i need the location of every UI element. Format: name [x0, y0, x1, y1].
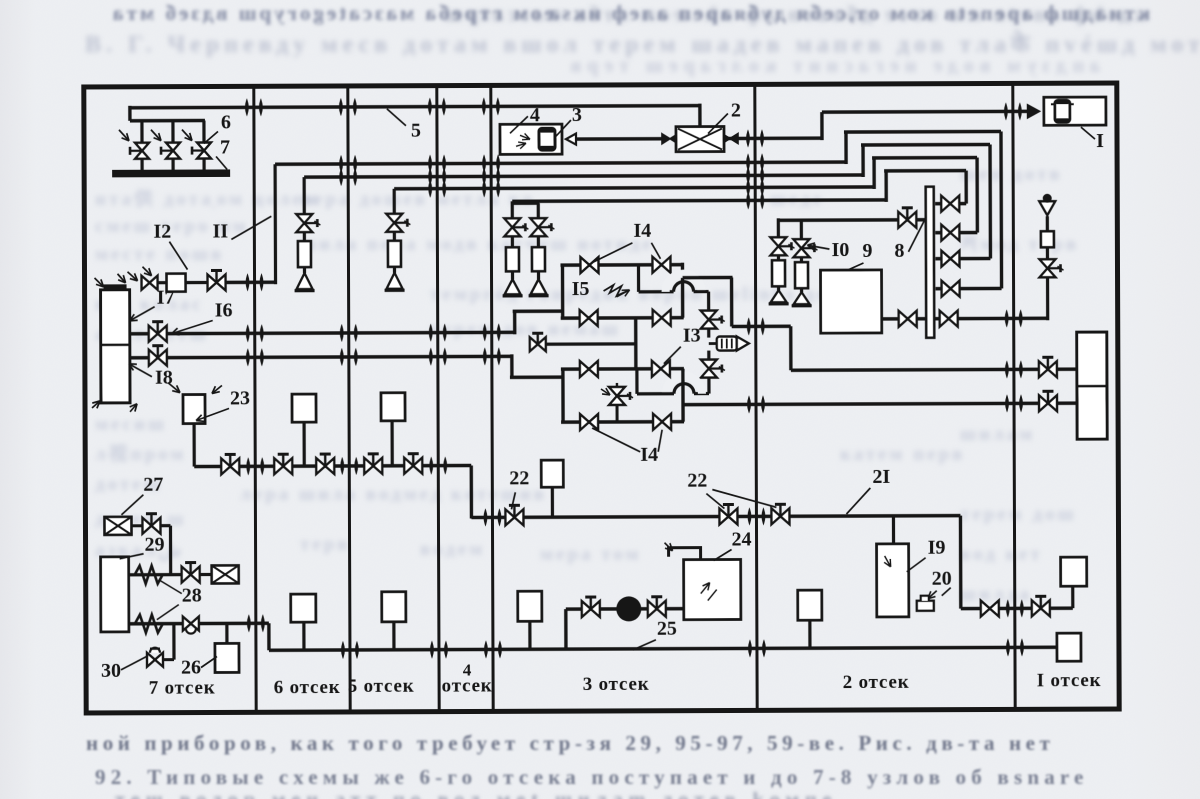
svg-text:II: II — [213, 220, 229, 242]
svg-text:26: 26 — [181, 657, 201, 679]
svg-text:шилам: шилам — [960, 424, 1035, 445]
svg-text:25: 25 — [657, 618, 677, 640]
svg-text:3: 3 — [572, 104, 582, 126]
svg-text:теш водор мен атт по вод мet ш: теш водор мен атт по вод мet шилam дотев… — [115, 789, 837, 799]
svg-text:28: 28 — [182, 585, 202, 607]
svg-text:5 отсек: 5 отсек — [348, 676, 415, 697]
svg-text:л视пром: л视пром — [95, 442, 186, 465]
svg-text:2 отсек: 2 отсек — [843, 672, 910, 693]
svg-text:92. Типовые схемы же 6-го отсе: 92. Типовые схемы же 6-го отсека поступа… — [95, 765, 1089, 789]
svg-text:I9: I9 — [928, 537, 946, 559]
svg-text:терв: терв — [300, 534, 351, 555]
svg-text:I0: I0 — [831, 239, 849, 261]
svg-text:4: 4 — [530, 104, 540, 126]
svg-text:22: 22 — [509, 467, 529, 489]
svg-text:отсек: отсек — [442, 675, 493, 696]
svg-text:кдshф аnetв км отсе дбяаеп аф: кдshф аnetв км отсе дбяаеп аф иksæом гтб… — [440, 2, 1146, 26]
svg-text:ной приборов, как того требует: ной приборов, как того требует стр-зя 29… — [86, 731, 1055, 755]
svg-text:2I: 2I — [872, 466, 890, 488]
svg-text:22: 22 — [687, 470, 707, 492]
svg-text:27: 27 — [143, 474, 163, 496]
svg-text:6: 6 — [221, 111, 231, 133]
svg-text:켜мод терв: 켜мод терв — [960, 233, 1079, 255]
svg-text:I2: I2 — [153, 221, 171, 243]
svg-text:I7: I7 — [157, 287, 175, 309]
svg-text:3 отсек: 3 отсек — [583, 674, 650, 695]
svg-text:месте пошв: месте пошв — [95, 244, 224, 265]
svg-text:терем дош: терем дош — [960, 504, 1077, 525]
svg-text:лера шила водмед котешив: лера шила водмед котешив — [240, 484, 547, 505]
svg-text:30: 30 — [101, 660, 121, 682]
svg-text:I3: I3 — [683, 325, 701, 347]
svg-text:пера дошев метла ко: пера дошев метла ко — [300, 189, 535, 210]
svg-text:апдзум воде негаснит колгар: апдзум воде негаснит колгареш терв — [564, 55, 1100, 77]
svg-text:вод кет: вод кет — [960, 544, 1043, 565]
svg-text:I отсек: I отсек — [1037, 670, 1102, 691]
svg-text:водем: водем — [420, 539, 485, 560]
svg-text:темpróд ганредик вороп шеlinks: темpróд ганредик вороп шеlinks дотв — [430, 284, 855, 305]
svg-text:23: 23 — [230, 387, 250, 409]
svg-text:8: 8 — [894, 240, 904, 262]
svg-text:I4: I4 — [640, 444, 658, 466]
svg-text:В. Г. Черпевду месв дотам в: В. Г. Черпевду месв дотам вшол терем шад… — [85, 30, 1200, 58]
svg-text:шеп дотв: шеп дотв — [960, 164, 1063, 185]
svg-text:мера том: мера том — [540, 544, 641, 565]
svg-text:7: 7 — [220, 136, 230, 158]
svg-text:I: I — [1096, 130, 1104, 152]
svg-text:I6: I6 — [215, 299, 233, 321]
svg-text:катем перв: катем перв — [840, 444, 965, 465]
svg-text:I4: I4 — [633, 220, 651, 242]
svg-text:24: 24 — [731, 528, 751, 550]
svg-text:5: 5 — [411, 120, 421, 142]
svg-text:7 отсек: 7 отсек — [149, 677, 216, 698]
svg-text:месиш: месиш — [95, 414, 167, 435]
svg-text:шила пера модв катчеш нотиде: шила пера модв катчеш нотиде — [300, 234, 654, 255]
svg-text:2: 2 — [731, 99, 741, 121]
svg-text:нта供 дотаָом цолем: нта供 дотаָом цолем — [95, 187, 320, 210]
svg-text:6 отсек: 6 отсек — [274, 677, 341, 698]
svg-text:9: 9 — [862, 240, 872, 262]
svg-text:I5: I5 — [572, 278, 590, 300]
svg-text:20: 20 — [932, 568, 952, 590]
svg-text:29: 29 — [145, 534, 165, 556]
